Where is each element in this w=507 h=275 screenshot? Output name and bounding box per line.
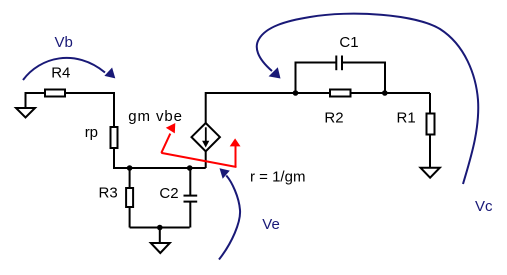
svg-text:Ve: Ve [262,216,280,233]
node R3 top [127,165,133,171]
ground [16,108,35,118]
svg-text:Vc: Vc [475,198,493,215]
arrowhead Ve [220,168,230,179]
wire [206,93,430,123]
svg-text:R3: R3 [99,185,118,202]
node junctions [127,90,388,230]
wire [429,93,431,114]
svg-text:C2: C2 [159,185,178,202]
resistor rp [111,127,118,148]
arrowhead Vb [104,68,115,79]
wire [64,93,114,128]
wire [130,227,190,229]
arrow Vb arc [23,58,105,80]
wire [159,228,161,244]
red line r=1/gm [161,153,236,167]
wire [429,134,431,168]
ground [151,243,170,253]
arrow Ve curve [219,176,240,260]
arrowhead red vertical [230,138,241,146]
wire [114,147,206,168]
arrowhead Vc [269,67,281,78]
resistor R3 [126,188,133,207]
resistor R4 [45,90,65,97]
resistor R2 [330,90,351,97]
wire [26,93,47,107]
red annotation arrows [161,134,236,167]
arrow Vc curve [257,14,478,184]
svg-text:R1: R1 [397,109,416,126]
node C1 left [293,90,299,96]
red vertical arrow stem [235,146,237,167]
resistor R1 [427,114,435,135]
wire [129,206,131,228]
capacitor C2 [184,168,198,228]
wire [205,151,207,168]
node C2 top [187,165,193,171]
svg-text:C1: C1 [339,34,358,51]
node ground mid [157,225,163,231]
source arrow [202,127,209,147]
node C1 right [382,90,388,96]
controlled source gm vbe [192,123,220,151]
wire [129,168,131,189]
arrow stem to gm vbe [161,134,170,153]
svg-text:R4: R4 [51,65,70,82]
svg-text:rp: rp [85,124,98,141]
labels black [51,34,415,202]
svg-text:gm vbe: gm vbe [128,108,183,125]
svg-text:R2: R2 [324,109,343,126]
arrowhead gm vbe [166,123,176,133]
capacitor C1 [296,56,386,94]
svg-text:Vb: Vb [55,34,73,51]
ground [421,168,440,178]
labels blue [55,34,494,233]
svg-text:r = 1/gm: r = 1/gm [250,168,305,185]
